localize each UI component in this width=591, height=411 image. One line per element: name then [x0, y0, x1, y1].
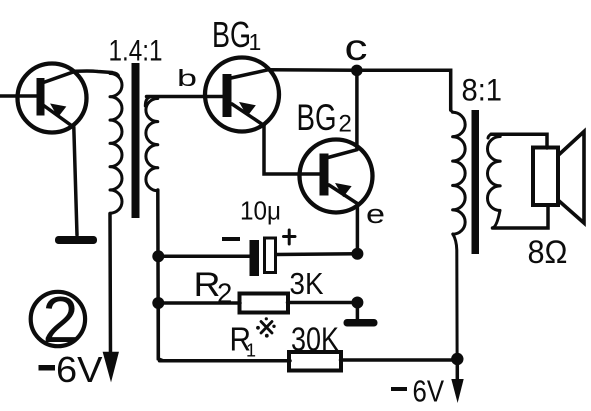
transistor BG2 emitter arrow	[337, 184, 351, 196]
arrowhead -6V right	[451, 379, 463, 403]
speaker cone	[559, 132, 585, 224]
transistor BG1 emitter arrow	[241, 103, 255, 115]
capacitor minus sign	[222, 237, 240, 241]
svg-text:e: e	[366, 199, 385, 229]
ground bar right	[344, 319, 378, 327]
svg-text:b: b	[177, 65, 197, 91]
capacitor C negative plate	[250, 240, 260, 276]
transformer T2 secondary coil	[487, 134, 500, 228]
transistor Q driver: emitter arrow	[52, 105, 66, 117]
svg-text:30K: 30K	[291, 321, 339, 358]
transistor BG1 emitter lead	[232, 104, 264, 126]
junction dot right cap rail	[351, 248, 363, 260]
label -6V right minus	[391, 387, 407, 391]
svg-text:BG: BG	[297, 96, 337, 138]
badge circle 2	[31, 292, 85, 346]
wire: left rail down from R2 to bottom rail	[157, 303, 161, 358]
transistor BG1 collector lead	[231, 70, 268, 78]
transistor BG2 circle	[300, 140, 373, 213]
wire: capacitor rail	[158, 254, 357, 256]
svg-text:3K: 3K	[290, 266, 324, 301]
speaker driver box	[533, 148, 558, 206]
wire: T2 secondary bottom lead to speaker	[493, 205, 549, 228]
wire: R2 rail	[158, 301, 357, 305]
transformer T1 primary coil	[110, 73, 122, 214]
transistor Q driver: emitter lead	[43, 105, 74, 127]
wire: BG1 emitter down and right to BG2 base	[264, 126, 320, 175]
label -6V left minus	[39, 365, 56, 371]
node c junction dot	[351, 65, 363, 77]
junction dot left R2 rail	[152, 297, 164, 309]
svg-text:10μ: 10μ	[240, 196, 281, 226]
svg-text:6V: 6V	[56, 349, 103, 390]
transformer T2 core bar	[472, 110, 480, 254]
wire: driver collector to T1 primary top	[75, 71, 112, 73]
ground bar under driver emitter	[55, 236, 97, 244]
transistor BG1 base bar	[223, 74, 232, 117]
svg-text:6V: 6V	[413, 374, 445, 409]
svg-text:8Ω: 8Ω	[528, 234, 568, 270]
transistor BG2 emitter lead	[329, 185, 357, 204]
resistor R2 body	[240, 294, 289, 313]
reference mark	[256, 317, 276, 337]
svg-text:c: c	[345, 27, 368, 68]
svg-text:1: 1	[246, 341, 256, 361]
transformer T2 primary coil	[451, 108, 465, 353]
wire: T1 primary bottom lead down	[108, 214, 112, 361]
transistor Q driver: collector lead	[42, 71, 75, 83]
svg-text:2: 2	[339, 111, 352, 138]
transistor BG2 collector lead	[328, 150, 357, 158]
resistor R1 body	[289, 352, 341, 371]
junction dot left cap rail	[152, 250, 164, 262]
capacitor C positive plate	[265, 238, 276, 273]
wire: bottom rail with R1	[160, 358, 458, 362]
wire: right rail R2 dot down to ground	[356, 303, 360, 320]
junction dot right R2 rail	[351, 297, 363, 309]
wire: driver emitter down to ground bar	[74, 127, 77, 235]
svg-text:1: 1	[249, 29, 262, 55]
svg-text:2: 2	[42, 283, 78, 356]
junction dot bottom right	[451, 353, 463, 365]
wire: T1 secondary top lead to BG1 base	[147, 95, 224, 99]
transformer T1 core bar	[132, 63, 140, 218]
svg-text:2: 2	[217, 278, 232, 309]
transistor Q driver: circle	[18, 64, 87, 133]
transformer T1 secondary coil	[145, 97, 158, 191]
wire: node c down to BG2 collector	[355, 70, 359, 149]
transistor Q driver: base bar	[37, 78, 45, 116]
svg-text:BG: BG	[212, 14, 251, 55]
transistor BG2 base bar	[320, 154, 329, 196]
wire: -6V right stub	[456, 359, 460, 382]
svg-text:1.4:1: 1.4:1	[109, 35, 163, 68]
svg-text:8:1: 8:1	[462, 72, 503, 108]
wire: top rail BG1 collector to output transformer	[268, 70, 451, 110]
transistor Q driver: base lead wire	[0, 94, 37, 98]
wire: BG2 emitter down to bias rail	[356, 204, 360, 256]
arrowhead -6V left	[104, 353, 118, 380]
wire: T1 secondary bottom lead down	[158, 190, 163, 361]
wire: T2 secondary top lead to speaker	[491, 134, 547, 148]
capacitor plus sign	[284, 230, 296, 244]
transistor BG1 circle	[205, 58, 279, 132]
